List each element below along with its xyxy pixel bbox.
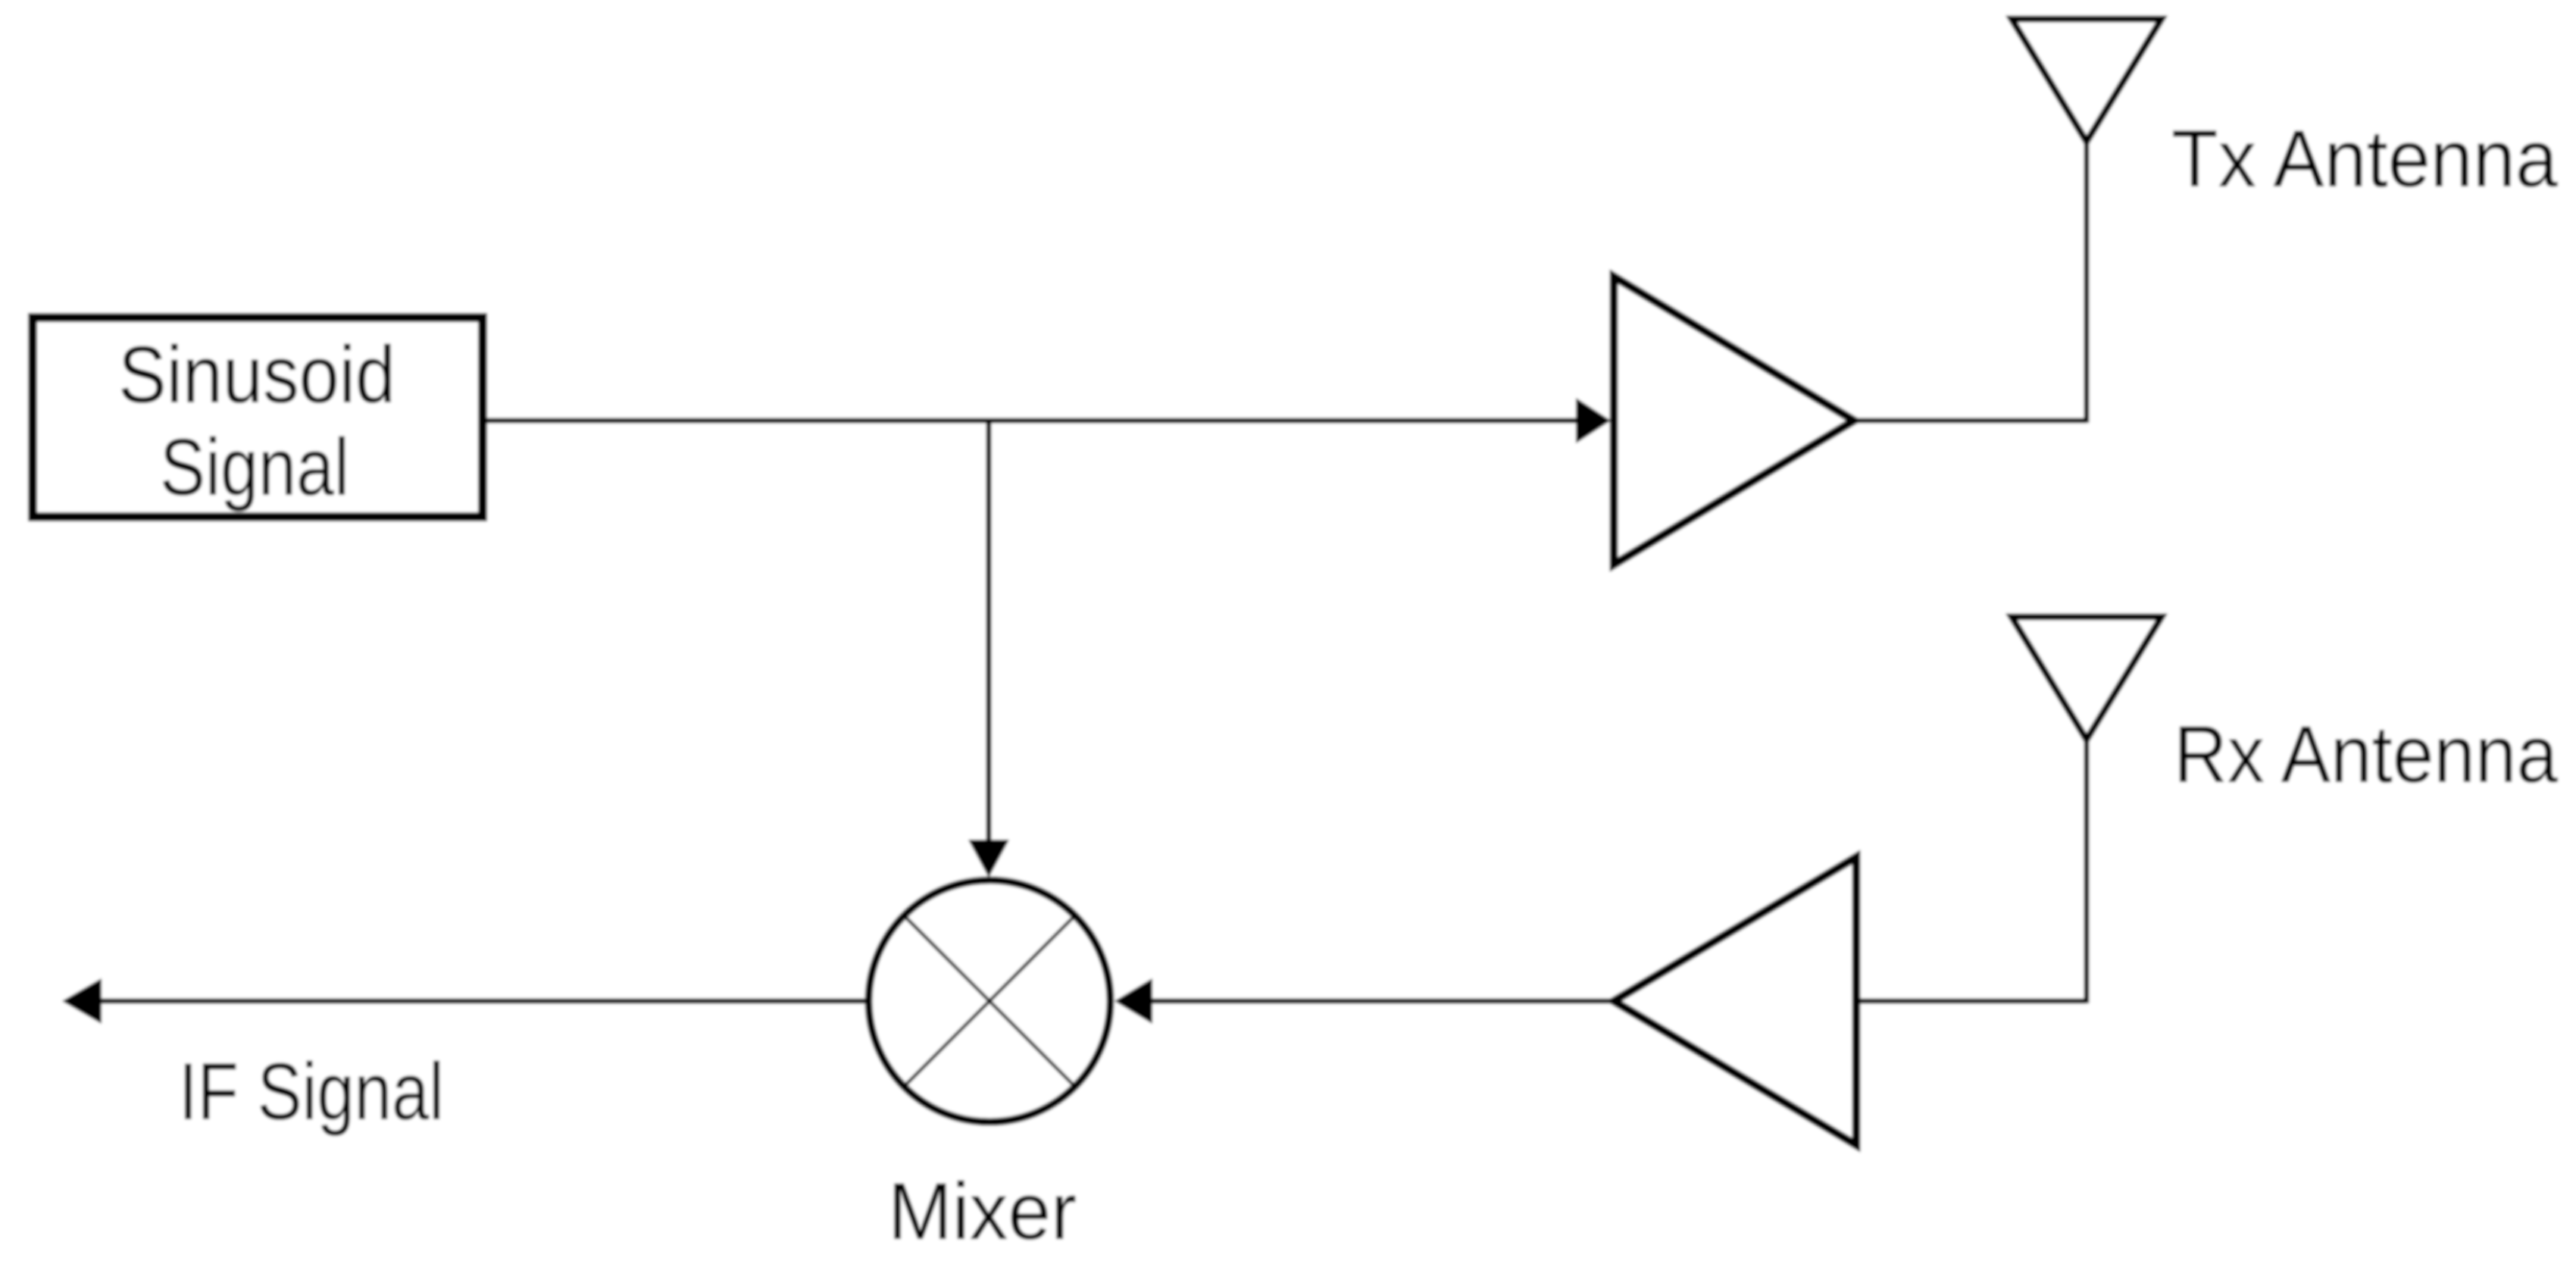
Tx antenna — [2012, 19, 2162, 142]
arrowhead into mixer right side (points left) — [1114, 978, 1152, 1024]
svg-text:Rx Antenna: Rx Antenna — [2174, 709, 2558, 799]
wire: mixer output to IF (horizontal) — [98, 999, 866, 1004]
svg-text:Tx Antenna: Tx Antenna — [2171, 113, 2558, 204]
wire: Tx antenna feed (vertical) — [2084, 140, 2090, 423]
svg-text:Sinusoid: Sinusoid — [118, 329, 395, 420]
arrowhead into mixer top — [968, 840, 1009, 878]
sinusoid signal source box — [33, 318, 483, 517]
wire: Tx amplifier output to Tx antenna (horizontal) — [1854, 418, 2087, 424]
svg-text:Signal: Signal — [160, 421, 349, 512]
wire: Rx antenna feed (vertical) — [2084, 738, 2090, 1003]
Rx antenna — [2012, 617, 2162, 740]
mixer X diagonal 2 — [904, 915, 1075, 1087]
op-amp style Tx power amplifier — [1614, 277, 1854, 565]
wire: Rx amplifier output to mixer — [1151, 999, 1614, 1004]
arrowhead into Tx amplifier — [1576, 398, 1611, 443]
wire: Rx antenna to Rx amplifier (horizontal) — [1856, 999, 2087, 1004]
mixer X diagonal 1 — [904, 915, 1075, 1087]
svg-text:Mixer: Mixer — [888, 1166, 1077, 1256]
mixer circle — [869, 881, 1111, 1122]
wire: junction drop to mixer (vertical) — [986, 421, 992, 841]
wire: source box to Tx amplifier — [487, 418, 1577, 424]
arrowhead IF output (points left) — [62, 978, 102, 1024]
svg-text:IF Signal: IF Signal — [179, 1046, 444, 1137]
Rx low-noise amplifier (points left) — [1614, 857, 1856, 1145]
